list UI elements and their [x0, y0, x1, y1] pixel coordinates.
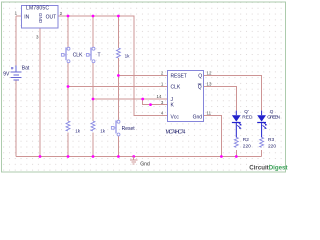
- svg-text:RESET: RESET: [171, 74, 187, 80]
- svg-text:1k: 1k: [75, 128, 81, 133]
- svg-text:CircuitDigest: CircuitDigest: [249, 165, 287, 172]
- svg-text:LM7805C: LM7805C: [26, 6, 49, 12]
- svg-text:220: 220: [268, 144, 276, 150]
- svg-text:CLK: CLK: [73, 52, 83, 58]
- svg-text:GREEN: GREEN: [267, 115, 280, 121]
- svg-text:R2: R2: [243, 137, 249, 143]
- svg-text:R3: R3: [268, 137, 274, 143]
- svg-text:Q: Q: [198, 84, 202, 90]
- svg-text:IN: IN: [24, 14, 29, 20]
- svg-text:MC74HC74: MC74HC74: [166, 130, 186, 136]
- svg-text:12: 12: [207, 71, 212, 76]
- svg-text:RED: RED: [242, 115, 253, 121]
- svg-text:GND: GND: [38, 13, 43, 24]
- svg-text:1k: 1k: [100, 128, 106, 133]
- svg-text:220: 220: [243, 144, 251, 150]
- svg-text:13: 13: [207, 82, 212, 87]
- svg-text:CLK: CLK: [171, 84, 181, 90]
- svg-text:Bat: Bat: [22, 66, 30, 72]
- svg-text:Vcc: Vcc: [171, 114, 180, 120]
- svg-text:14: 14: [157, 94, 162, 99]
- svg-text:OUT: OUT: [46, 14, 57, 20]
- svg-text:Gnd: Gnd: [140, 161, 150, 167]
- svg-text:Gnd: Gnd: [193, 114, 203, 120]
- svg-text:T: T: [98, 52, 101, 58]
- svg-text:11: 11: [207, 111, 212, 116]
- svg-text:Q: Q: [198, 74, 202, 80]
- svg-text:1k: 1k: [125, 54, 131, 59]
- svg-text:9V: 9V: [3, 71, 10, 77]
- svg-text:Reset: Reset: [122, 126, 136, 132]
- svg-text:Q': Q': [244, 109, 249, 114]
- svg-text:Q: Q: [270, 109, 274, 114]
